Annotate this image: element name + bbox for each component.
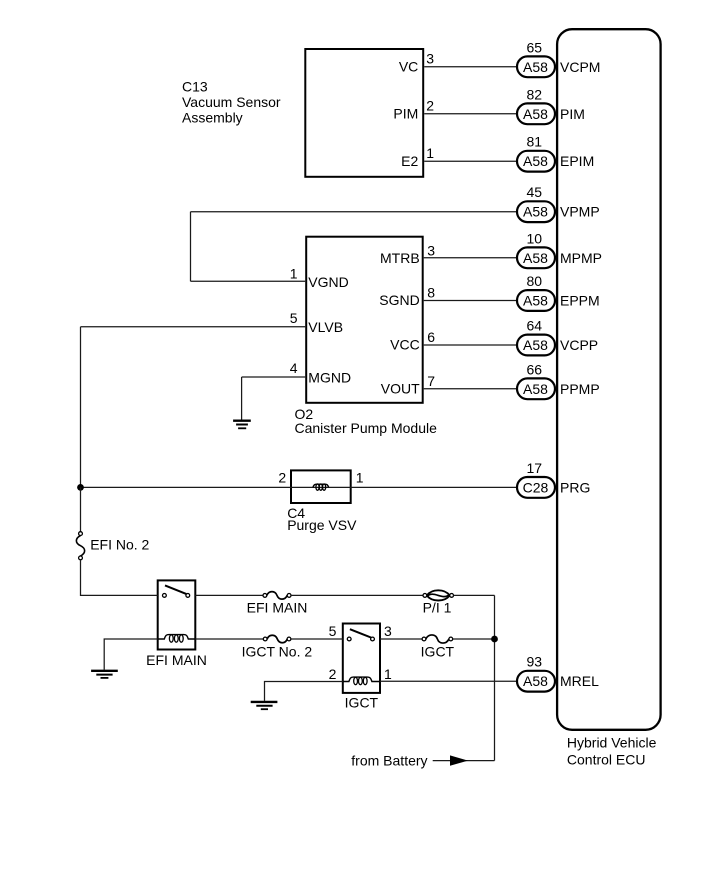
svg-text:82: 82: [527, 86, 543, 102]
connector A58 pin 64 VCPP: [517, 318, 598, 356]
svg-text:PRG: PRG: [560, 479, 590, 495]
wire VLVB vertical down to PRG node: [80, 327, 82, 488]
wire fuse to EFI MAIN relay: [81, 560, 158, 596]
fusible link P/I 1: [423, 590, 454, 600]
solenoid box C4 Purge VSV: [291, 470, 351, 503]
pin 4 MGND of O2: [290, 360, 351, 386]
svg-text:VOUT: VOUT: [381, 381, 420, 397]
svg-text:VCPP: VCPP: [560, 337, 598, 353]
wire EFI MAIN coil to fuse IGCT No. 2: [195, 638, 263, 640]
pin 2 PIM of C13: [393, 98, 434, 122]
svg-text:Assembly: Assembly: [182, 110, 243, 126]
connector A58 pin 66 PPMP: [517, 361, 600, 399]
svg-text:EFI No. 2: EFI No. 2: [90, 537, 149, 553]
svg-text:A58: A58: [523, 381, 548, 397]
svg-text:1: 1: [426, 145, 434, 161]
fuse IGCT: [422, 635, 453, 643]
pin 3 VC of C13: [399, 51, 434, 75]
svg-text:80: 80: [527, 273, 543, 289]
svg-text:93: 93: [527, 654, 543, 670]
svg-text:64: 64: [527, 318, 543, 334]
svg-text:7: 7: [427, 373, 435, 389]
svg-text:8: 8: [427, 285, 435, 301]
wire EFI MAIN relay switch to fuse EFI MAIN: [195, 594, 263, 596]
connector A58 pin 81 EPIM: [517, 134, 594, 172]
svg-text:PIM: PIM: [393, 106, 418, 122]
svg-text:6: 6: [427, 329, 435, 345]
connector box C13 Vacuum Sensor Assembly: [305, 49, 423, 177]
label C4 Purge VSV: [287, 505, 357, 533]
relay box IGCT: [343, 624, 380, 693]
svg-text:2: 2: [426, 98, 434, 114]
svg-text:A58: A58: [523, 250, 548, 266]
svg-text:VCPM: VCPM: [560, 59, 600, 75]
connector A58 pin 10 MPMP: [517, 230, 602, 268]
svg-text:81: 81: [527, 134, 543, 150]
svg-text:66: 66: [527, 361, 543, 377]
ground for IGCT relay coil: [251, 702, 278, 709]
wire MGND horizontal: [242, 376, 306, 378]
svg-text:EPPM: EPPM: [560, 293, 600, 309]
pin 1 E2 of C13: [401, 145, 434, 169]
wire MTRB to A58-10: [424, 257, 516, 259]
pin 8 SGND of O2: [379, 285, 435, 309]
wire battery riser vertical: [494, 595, 496, 760]
svg-text:MPMP: MPMP: [560, 250, 602, 266]
svg-text:65: 65: [527, 39, 543, 55]
connector A58 pin 82 PIM: [517, 86, 585, 124]
svg-text:1: 1: [384, 666, 392, 682]
IGCT relay switch blade: [350, 629, 371, 637]
svg-text:5: 5: [290, 310, 298, 326]
wire EFI MAIN coil to ground: [104, 639, 158, 670]
svg-text:MTRB: MTRB: [380, 250, 420, 266]
svg-text:17: 17: [527, 460, 543, 476]
ground for MGND: [233, 421, 251, 429]
wire VOUT to A58-66: [424, 388, 516, 390]
svg-text:1: 1: [356, 469, 364, 485]
svg-text:A58: A58: [523, 337, 548, 353]
svg-text:Control ECU: Control ECU: [567, 751, 646, 767]
coil of C4 Purge VSV: [313, 484, 329, 490]
wire SGND to A58-80: [424, 300, 516, 302]
svg-text:A58: A58: [523, 204, 548, 220]
wire VPMP horizontal: [191, 211, 517, 213]
svg-text:from Battery: from Battery: [351, 752, 427, 768]
connector A58 pin 65 VCPM: [517, 39, 600, 77]
svg-text:VC: VC: [399, 59, 418, 75]
ECU body Hybrid Vehicle Control ECU: [557, 29, 661, 730]
EFI MAIN relay switch contacts: [163, 594, 190, 598]
svg-text:3: 3: [427, 243, 435, 259]
svg-text:MREL: MREL: [560, 673, 599, 689]
wire from Battery with arrow: [433, 755, 495, 765]
svg-text:3: 3: [384, 623, 392, 639]
label C13 Vacuum Sensor Assembly: [182, 79, 281, 126]
svg-text:A58: A58: [523, 106, 548, 122]
svg-text:VLVB: VLVB: [308, 319, 343, 335]
wire fuse EFI MAIN to fusible link P/I 1: [291, 594, 423, 596]
svg-text:P/I 1: P/I 1: [423, 600, 452, 616]
svg-text:4: 4: [290, 360, 298, 376]
svg-text:A58: A58: [523, 59, 548, 75]
node junction VLVB/PRG: [77, 484, 84, 491]
wire MGND vertical to ground: [241, 377, 243, 420]
module box O2 Canister Pump Module: [306, 237, 423, 403]
fuse IGCT No. 2: [263, 635, 291, 643]
connector C28 pin 17 PRG: [517, 460, 590, 498]
fuse EFI No. 2: [76, 532, 84, 560]
svg-text:SGND: SGND: [379, 292, 419, 308]
wire E2 to A58-81: [424, 160, 516, 162]
svg-text:C13: C13: [182, 79, 208, 95]
svg-text:Purge VSV: Purge VSV: [287, 517, 357, 533]
svg-text:EFI MAIN: EFI MAIN: [146, 652, 207, 668]
wire PIM to A58-82: [424, 113, 516, 115]
wire VPMP vertical to VGND: [190, 212, 192, 282]
wire IGCT pin 1 to A58-93 MREL: [380, 680, 516, 682]
svg-text:MGND: MGND: [308, 370, 351, 386]
connector A58 pin 80 EPPM: [517, 273, 600, 311]
svg-text:1: 1: [290, 265, 298, 281]
ground for EFI MAIN relay coil: [91, 671, 118, 678]
svg-text:IGCT: IGCT: [345, 694, 379, 710]
svg-text:Hybrid Vehicle: Hybrid Vehicle: [567, 734, 657, 750]
wire fuse IGCT to battery riser node: [453, 638, 495, 640]
svg-text:2: 2: [278, 469, 286, 485]
svg-text:EPIM: EPIM: [560, 153, 594, 169]
svg-text:A58: A58: [523, 673, 548, 689]
svg-text:E2: E2: [401, 153, 418, 169]
pin 7 VOUT of O2: [381, 373, 435, 397]
svg-text:5: 5: [329, 623, 337, 639]
wire IGCT pin 3 to fuse IGCT: [380, 638, 422, 640]
relay box EFI MAIN: [158, 580, 196, 649]
wire P/I 1 to battery riser: [454, 594, 495, 596]
EFI MAIN relay coil: [158, 635, 196, 643]
svg-text:10: 10: [527, 230, 543, 246]
svg-text:Vacuum Sensor: Vacuum Sensor: [182, 94, 281, 110]
svg-text:C28: C28: [523, 479, 549, 495]
svg-text:VPMP: VPMP: [560, 204, 600, 220]
svg-text:2: 2: [329, 666, 337, 682]
label O2 Canister Pump Module: [295, 406, 438, 436]
EFI MAIN relay switch blade: [165, 585, 186, 594]
svg-text:3: 3: [426, 51, 434, 67]
svg-text:PPMP: PPMP: [560, 381, 600, 397]
IGCT relay switch contacts: [347, 637, 374, 641]
pin 6 VCC of O2: [390, 329, 435, 353]
label Hybrid Vehicle Control ECU: [567, 734, 657, 767]
svg-text:VCC: VCC: [390, 337, 420, 353]
connector A58 pin 93 MREL: [517, 654, 599, 692]
wire PRG from node through Purge VSV to C28-17: [81, 486, 517, 488]
wire IGCT pin 2 to ground: [265, 682, 343, 701]
IGCT relay coil: [343, 677, 380, 685]
svg-text:IGCT: IGCT: [421, 644, 455, 660]
svg-text:EFI MAIN: EFI MAIN: [247, 599, 308, 615]
wire VC to A58-65: [424, 66, 516, 68]
node junction battery riser / IGCT: [491, 636, 498, 643]
svg-text:A58: A58: [523, 293, 548, 309]
connector A58 pin 45 VPMP: [517, 184, 600, 222]
svg-text:PIM: PIM: [560, 106, 585, 122]
wire VCC to A58-64: [424, 344, 516, 346]
pin 5 VLVB of O2: [290, 310, 343, 335]
wire VLVB horizontal: [81, 326, 306, 328]
svg-text:Canister Pump Module: Canister Pump Module: [295, 420, 438, 436]
pin 1 VGND of O2: [290, 265, 349, 289]
wire VGND horizontal: [191, 280, 306, 282]
wire node to fuse EFI No.2: [80, 487, 82, 531]
fuse EFI MAIN: [263, 592, 291, 600]
svg-text:45: 45: [527, 184, 543, 200]
svg-text:A58: A58: [523, 153, 548, 169]
wire fuse IGCT No.2 to IGCT relay pin 5: [291, 638, 343, 640]
svg-text:IGCT No. 2: IGCT No. 2: [242, 644, 313, 660]
pin 3 MTRB of O2: [380, 243, 435, 266]
svg-text:VGND: VGND: [308, 274, 348, 290]
